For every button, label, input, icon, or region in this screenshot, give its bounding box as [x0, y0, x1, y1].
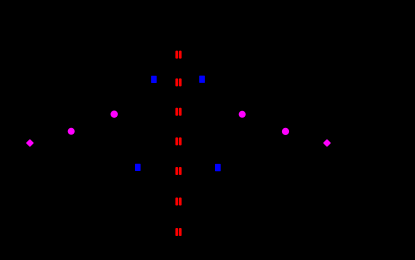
- oxygen O6: [175, 198, 181, 206]
- bond C-N2: [185, 79, 198, 88]
- phosphorus P2: [68, 128, 75, 135]
- nitrogen N4: [215, 164, 221, 171]
- bond N2-CH2 right: [205, 84, 207, 97]
- nitrogen N3: [135, 164, 141, 171]
- nitrogen N2: [199, 76, 205, 83]
- bond N1-CH2 left: [150, 84, 151, 97]
- phosphorus P5: [282, 128, 289, 135]
- oxygen O7: [175, 228, 181, 236]
- bond C-N4: [185, 160, 214, 168]
- phosphorus P3: [26, 139, 34, 147]
- bond P2-C left: [50, 131, 71, 137]
- bond C-P5 right: [264, 123, 286, 131]
- bond P5-C right: [286, 131, 308, 137]
- oxygen O3: [175, 108, 181, 116]
- wire: central carbon chain: [178, 45, 180, 240]
- bond P1-C left: [92, 114, 114, 123]
- oxygen O5: [175, 167, 181, 175]
- oxygen O2: [175, 78, 181, 86]
- bond P4-C right: [242, 114, 264, 123]
- phosphorus P4: [239, 111, 246, 118]
- phosphorus P6: [323, 139, 331, 147]
- phosphorus P1: [111, 111, 118, 118]
- oxygen O1: [175, 51, 181, 59]
- bond C-N1: [158, 79, 172, 88]
- bond C-P6 right: [307, 137, 327, 143]
- bond C-P2 left: [71, 123, 92, 131]
- bond chain left upper: [114, 97, 150, 114]
- oxygen O4: [175, 137, 181, 145]
- bond chain right upper: [207, 97, 242, 114]
- bond C-P3 left: [30, 137, 50, 143]
- nitrogen N1: [151, 76, 157, 83]
- bond C-N3: [142, 160, 172, 167]
